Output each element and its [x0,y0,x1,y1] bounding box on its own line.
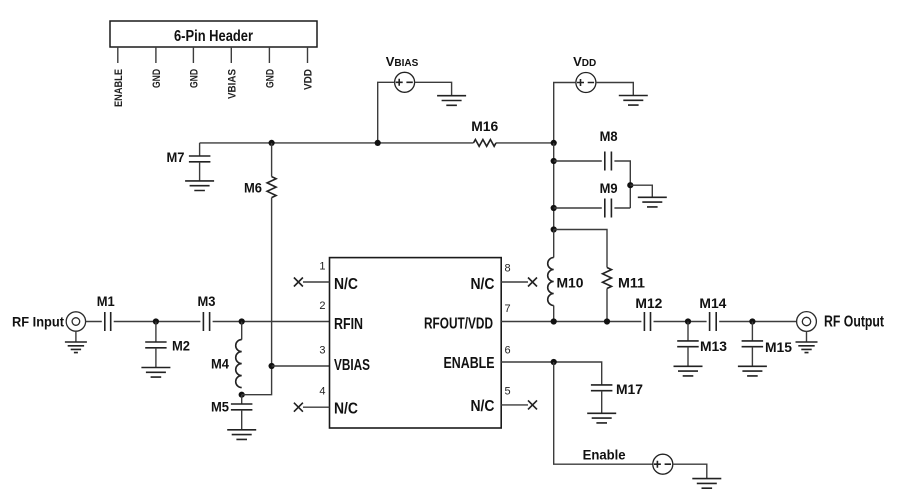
inductor M4 [241,322,243,340]
svg-text:Enable: Enable [583,447,626,463]
capacitor M1 [105,312,111,331]
voltage source Enable [653,454,673,474]
svg-text:M9: M9 [600,180,618,196]
wire top bias rail [200,142,554,144]
ground at M17 [587,413,616,423]
wire input to M1 [86,321,102,323]
svg-text:ENABLE: ENABLE [444,355,495,372]
connector J2 RF input [66,312,85,331]
node rail-VDD [551,140,557,146]
resistor M16 [474,140,497,147]
header pin 1 stub [117,47,119,63]
svg-text:M6: M6 [244,179,262,195]
capacitor M17 [591,385,613,391]
svg-text:N/C: N/C [334,276,358,293]
inductor M10 [553,230,555,258]
wire VDD vertical bus [553,143,555,230]
svg-text:M3: M3 [198,293,216,309]
wire M9 branch left [554,207,602,209]
no-connect X pin 5 [528,400,537,409]
capacitor M5 [241,395,243,404]
svg-text:VBIAS: VBIAS [334,357,370,374]
node rail-M11 [604,318,610,324]
svg-text:6-Pin Header: 6-Pin Header [174,28,253,45]
svg-text:M13: M13 [700,338,727,354]
svg-text:M10: M10 [557,274,584,290]
resistor M6 [271,143,273,177]
wire pin 3 to VBIAS feed [272,365,330,367]
svg-text:M12: M12 [635,295,662,311]
node M4-M5 [239,392,245,398]
svg-text:ENABLE: ENABLE [113,69,125,107]
node bus-M10 [551,226,557,232]
wire M8 branch left [554,160,602,162]
ground at VDD source [619,96,648,106]
svg-text:1: 1 [319,261,325,273]
svg-text:M8: M8 [600,128,618,144]
svg-text:GND: GND [264,69,276,88]
node M8M9-ground tap [627,182,633,188]
svg-text:2: 2 [319,300,325,312]
no-connect X pin 1 [294,278,303,287]
wire RF output rail [501,321,796,323]
svg-text:3: 3 [319,345,325,357]
6-pin header box J1 [110,21,317,47]
no-connect X pin 4 [294,403,303,412]
wire enable to source [554,362,653,464]
node bus-M9 [551,205,557,211]
IC U1 box [330,258,502,428]
no-connect X pin 8 [528,278,537,287]
node rail-bus [551,318,557,324]
svg-text:8: 8 [505,263,511,275]
wire enable source right leg [673,464,707,478]
capacitor M15 [751,322,753,341]
capacitor M13 [687,322,689,341]
svg-text:7: 7 [505,303,511,315]
svg-text:M16: M16 [471,118,498,134]
svg-text:6: 6 [505,345,511,357]
wire M9 branch right [614,207,630,209]
header pin 3 stub [192,47,194,63]
node bus-M8 [551,158,557,164]
wire VDD source left leg [554,83,576,143]
ground at M8/M9 [638,197,667,207]
wire M8 branch right [614,161,630,208]
capacitor M12 [644,312,650,331]
voltage source VDD [576,73,596,93]
header pin 2 stub [155,47,157,63]
svg-text:RFIN: RFIN [334,316,363,333]
svg-text:RF Input: RF Input [12,314,64,330]
svg-text:GND: GND [188,69,200,88]
wire ground tap [630,185,652,197]
svg-text:M2: M2 [172,338,190,354]
ground at M5 [227,430,256,440]
capacitor M14 [710,312,717,331]
capacitor M7 [199,143,201,156]
wire M3 to IC pin 2 [213,321,330,323]
svg-text:M15: M15 [765,339,792,355]
svg-text:RF Output: RF Output [824,314,885,331]
node rail-M15 [749,318,755,324]
ground at M7 [185,181,214,191]
svg-text:M14: M14 [699,295,726,311]
svg-text:4: 4 [319,386,325,398]
ground at RF output connector [806,331,808,342]
pin 8 stub [501,281,528,283]
svg-text:5: 5 [505,386,511,398]
wire M6 to VBIAS pin node [271,198,273,366]
header pin 6 stub [307,47,309,63]
svg-text:VBIAS: VBIAS [226,69,238,99]
node rail-M13 [685,318,691,324]
capacitor M8 [605,152,612,171]
node enable tap [551,359,557,365]
svg-text:M4: M4 [211,356,229,372]
pin 5 stub [501,404,528,406]
svg-text:M11: M11 [618,274,645,290]
svg-text:M17: M17 [616,381,643,397]
wire VBIAS source left leg [378,82,395,143]
svg-text:N/C: N/C [334,401,358,418]
resistor M11 [603,268,612,289]
svg-text:VDD: VDD [303,69,315,90]
svg-text:M7: M7 [167,149,185,165]
capacitor M3 [203,312,209,331]
node M4 tap [239,318,245,324]
svg-text:M5: M5 [211,399,229,415]
ground at VBIAS source [437,96,466,106]
node VBIAS pin tap [269,363,275,369]
node rail-VBIAS [375,140,381,146]
svg-text:RFOUT/VDD: RFOUT/VDD [424,315,493,332]
voltage source VBIAS [395,72,415,92]
svg-text:M1: M1 [97,293,115,309]
header pin 5 stub [268,47,270,63]
node M2 tap [153,318,159,324]
wire VBIAS source right leg [415,82,452,95]
wire M1 to M3 [114,321,201,323]
svg-text:N/C: N/C [471,398,495,415]
wire VDD source right leg [596,83,633,96]
connector J3 RF output [797,312,817,332]
node rail-M6 [269,140,275,146]
wire pin 6 to M17 [501,362,602,385]
ground at M15 [738,366,767,376]
ground at M2 [141,368,170,378]
pin 4 stub [303,406,330,408]
svg-text:N/C: N/C [471,276,495,293]
svg-text:GND: GND [151,69,163,88]
ground at RF input connector [75,331,77,342]
ground at M13 [674,366,703,376]
wire M11 top branch [554,230,607,268]
pin 1 stub [303,281,330,283]
capacitor M9 [605,199,612,218]
wire VBIAS feed corner [242,366,272,395]
capacitor M2 [155,322,157,343]
header pin 4 stub [230,47,232,63]
ground at enable source [692,479,721,489]
